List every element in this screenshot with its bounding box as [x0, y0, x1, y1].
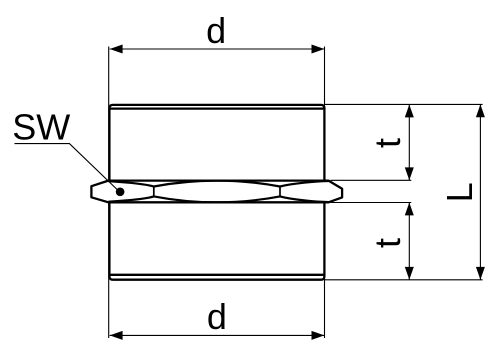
svg-text:d: d: [207, 296, 227, 337]
svg-text:t: t: [367, 238, 408, 248]
svg-text:d: d: [206, 10, 226, 51]
svg-text:SW: SW: [12, 107, 70, 148]
svg-text:L: L: [439, 182, 480, 202]
svg-text:t: t: [367, 138, 408, 148]
